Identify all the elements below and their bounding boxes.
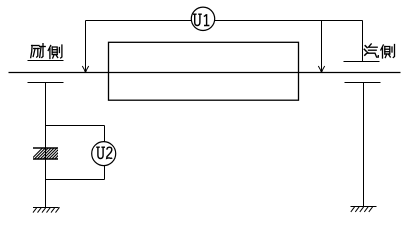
wire right drop to shaft [321, 21, 323, 72]
label 汽侧 (turbine side) [364, 44, 394, 58]
wire top horizontal right (U1 right lead) [215, 20, 363, 22]
label 励侧 (excitation side) [31, 44, 62, 59]
glyph 侧 (second) [381, 45, 395, 59]
glyph 侧 [48, 45, 62, 59]
bearing seat line (turbine side) [345, 82, 381, 84]
generator rotor body [109, 42, 299, 100]
underline / node stub of 汽侧 [344, 61, 380, 63]
underline of 励侧 [28, 60, 64, 62]
glyph 励 [31, 44, 46, 58]
wire U2 upper branch [46, 125, 105, 127]
voltmeter U1 [191, 7, 214, 30]
bearing insulation pad (hatched) [30, 148, 69, 161]
arrow contact right (brush on shaft, turbine side) [318, 66, 324, 72]
ground (excitation side) [33, 207, 60, 212]
bearing seat line (excitation side) [28, 82, 64, 84]
wire top horizontal left (U1 left lead) [86, 20, 192, 22]
wire U2 top lead [104, 126, 106, 142]
wire bearing pedestal vertical (turbine side) [363, 83, 365, 207]
wire bearing pedestal vertical (excitation side) [45, 83, 47, 208]
wire left drop to shaft [85, 21, 87, 72]
ground (turbine side) [351, 207, 377, 212]
glyph 汽 [364, 44, 378, 57]
shaft (rotor shaft line) [9, 72, 401, 74]
wire U2 bottom lead [104, 166, 106, 180]
voltmeter U2 [92, 142, 116, 166]
wire far-right drop to turbine-side node [362, 21, 364, 62]
arrow contact left (brush on shaft, excitation side) [82, 66, 88, 72]
wire U2 lower branch [46, 179, 105, 181]
